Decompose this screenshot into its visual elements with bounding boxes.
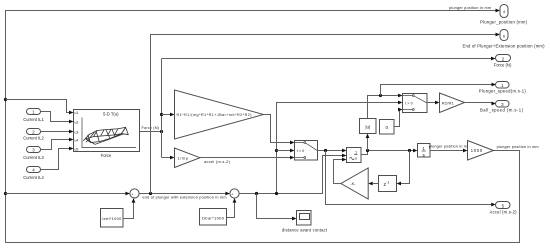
gain: -K- (mirrored) bbox=[341, 168, 368, 199]
svg-text:Ball_speed (m.s-1): Ball_speed (m.s-1) bbox=[480, 108, 524, 113]
svg-text:1: 1 bbox=[422, 146, 425, 151]
delay: unit delay z^-1 bbox=[379, 176, 397, 192]
svg-text:End of Plunger+Extension posit: End of Plunger+Extension position (mm) bbox=[463, 43, 546, 48]
wire: position m to 1000 gain bbox=[430, 149, 468, 153]
node: junction to abs bbox=[366, 149, 369, 152]
sum: Sum A (position + leef) bbox=[130, 189, 139, 200]
svg-text:t > 0: t > 0 bbox=[297, 149, 305, 153]
label: end of plunger with extension position in mm bbox=[143, 196, 227, 200]
port Out6 End of Plunger+Extension position (mm) bbox=[463, 30, 546, 49]
svg-text:Plunger_speed(m.s-1): Plunger_speed(m.s-1) bbox=[479, 89, 527, 94]
block: 5-D T(u) lookup table Force bbox=[74, 110, 140, 159]
svg-text:Force (N): Force (N) bbox=[494, 62, 512, 67]
svg-text:leef*1000: leef*1000 bbox=[102, 216, 122, 221]
wire: force to Out2 bbox=[162, 57, 496, 61]
wire: big gain output to switch1 input1 bbox=[264, 115, 295, 145]
label: plunger position in m bbox=[429, 144, 467, 148]
block: Dbar*1000 bbox=[200, 209, 227, 226]
wire: switch2 to R2/R1 gain bbox=[427, 101, 440, 105]
node: junction to big gain bbox=[160, 113, 163, 116]
svg-text:Force: Force bbox=[101, 153, 112, 158]
switch: Switch2 t > 0 bbox=[403, 94, 428, 113]
label: accel (m.s-2) bbox=[204, 159, 231, 164]
block: leef*1000 bbox=[101, 209, 124, 228]
svg-text:plunger position in mm: plunger position in mm bbox=[497, 145, 539, 149]
svg-text:Current IL3: Current IL3 bbox=[23, 155, 44, 160]
svg-text:Current IL1: Current IL1 bbox=[23, 117, 44, 122]
wire: to scope bbox=[257, 194, 297, 221]
wire: -K- output to integrator input3 bbox=[334, 158, 347, 184]
svg-text:R2/R1: R2/R1 bbox=[442, 100, 455, 105]
port Out3 Ball_speed (m.s-1) bbox=[480, 101, 524, 113]
wire: force vertical bus bbox=[161, 59, 163, 158]
node: junction accel out bbox=[324, 149, 327, 152]
wire: integrator output bbox=[361, 149, 418, 155]
svg-text:u2: u2 bbox=[75, 120, 79, 124]
scope: distance avant contact bbox=[282, 211, 328, 233]
wire: In4 to u5 bbox=[41, 147, 74, 170]
port In3 Current IL3 bbox=[23, 147, 44, 160]
wire: accel to switch1 input3 bbox=[200, 156, 295, 160]
constant: 0 bbox=[380, 120, 395, 135]
wire: control net (position mm) vertical to both switches bbox=[277, 101, 403, 194]
label: plunger position in mm (top) bbox=[449, 6, 491, 10]
wire: position feedback to u1 bbox=[6, 100, 74, 115]
port Out2 Force (N) bbox=[494, 55, 512, 68]
wire: Sum B output to integrator IC input bbox=[239, 154, 346, 194]
svg-text:Accel (m.s-2): Accel (m.s-2) bbox=[490, 210, 518, 215]
svg-text:s: s bbox=[355, 155, 357, 160]
svg-text:1000: 1000 bbox=[471, 148, 483, 153]
gain: 1/mp bbox=[175, 148, 201, 168]
svg-text:-K-: -K- bbox=[350, 181, 356, 186]
port In2 Current IL2 bbox=[23, 129, 44, 141]
wire: In1 to u2 bbox=[41, 112, 74, 124]
sum: Sum B (add Dbar) bbox=[230, 189, 239, 200]
gain: 1000 bbox=[468, 141, 494, 161]
wire: In2 to u3 bbox=[41, 130, 74, 134]
wire: to big gain input bbox=[162, 113, 175, 117]
wire: Dbar*1000 to Sum B bbox=[227, 198, 237, 217]
svg-text:u5: u5 bbox=[75, 147, 79, 151]
wire: abs output to switch2 input1 and Out1 bbox=[368, 94, 403, 119]
switch: Switch1 t > 0 bbox=[295, 141, 318, 161]
wire: constant 0 to switch2 input3 bbox=[394, 108, 403, 127]
svg-text:plunger position in mm: plunger position in mm bbox=[449, 6, 491, 10]
node: control junction to switch1 bbox=[275, 149, 278, 152]
node: junction on left border to sum A bbox=[4, 192, 7, 195]
gain: R2/R1 bbox=[440, 93, 465, 113]
wire: z^-1 feed from speed node bbox=[397, 151, 410, 186]
svg-text:Plunger_position (mm): Plunger_position (mm) bbox=[480, 20, 528, 25]
svg-text:|u|: |u| bbox=[365, 124, 370, 129]
port Out4 Plunger_position (mm) bbox=[480, 5, 528, 25]
node: force junction bbox=[160, 130, 163, 133]
svg-text:R1*R1/(mg*R1*R1+JBar+mb*R2*R2): R1*R1/(mg*R1*R1+JBar+mb*R2*R2) bbox=[177, 113, 252, 117]
wire: speed up to abs input bbox=[366, 134, 370, 151]
node: junction on left border to u1 bbox=[4, 98, 7, 101]
svg-text:plunger position in m: plunger position in m bbox=[429, 144, 467, 148]
gain: R1*R1/(mp*R1*R1+JBar+mb*R2*R2) bbox=[175, 90, 264, 139]
integrator: 1/s position bbox=[418, 144, 431, 158]
wire: leef*1000 to Sum A bbox=[123, 198, 135, 218]
node: junction to Out6 bbox=[149, 192, 152, 195]
wire: accel to Out5 bbox=[326, 151, 496, 207]
svg-text:Dbar*1000: Dbar*1000 bbox=[202, 215, 225, 220]
label: plunger position in mm (right) bbox=[497, 145, 539, 149]
svg-text:5-D T(u): 5-D T(u) bbox=[103, 111, 119, 116]
svg-text:u4: u4 bbox=[75, 138, 79, 142]
wire: to 1/mp gain input bbox=[162, 156, 175, 160]
svg-text:-1: -1 bbox=[386, 180, 389, 184]
svg-text:Current IL4: Current IL4 bbox=[23, 175, 44, 180]
svg-text:accel (m.s-2): accel (m.s-2) bbox=[204, 159, 231, 164]
wire: to Out6 End of Plunger+Extension bbox=[151, 33, 501, 194]
node: junction plunger speed bbox=[379, 94, 382, 97]
wire: switch1 output to integrator bbox=[318, 149, 347, 153]
port In4 Current IL4 bbox=[23, 167, 44, 180]
label: Force (N) wire label bbox=[141, 125, 159, 130]
wire: to Out1 Plunger_speed bbox=[381, 83, 497, 96]
abs: |u| bbox=[360, 119, 377, 134]
port Out1 Plunger_speed(m.s-1) bbox=[479, 82, 527, 94]
svg-text:Current IL2: Current IL2 bbox=[23, 135, 44, 140]
svg-text:u1: u1 bbox=[75, 111, 79, 115]
wire: Sum A output to Sum B bbox=[139, 192, 230, 196]
port In1 Current IL1 bbox=[23, 109, 44, 122]
wire: Force output to vertical bus bbox=[140, 131, 162, 133]
wire: left border to Sum A bbox=[6, 192, 130, 196]
wire: R2/R1 to Out3 Ball_speed bbox=[465, 102, 497, 106]
wire: In3 to u4 bbox=[41, 138, 74, 150]
node: junction to unit delay bbox=[408, 149, 411, 152]
wire: control to switch1 input2 bbox=[277, 149, 295, 153]
wire: unit delay to -K- gain bbox=[368, 182, 378, 186]
svg-text:distance avant contact: distance avant contact bbox=[282, 228, 328, 233]
svg-text:end of plunger with extension: end of plunger with extension position i… bbox=[143, 196, 227, 200]
node: junction control vertical bbox=[275, 192, 278, 195]
integrator: second-order with reset bbox=[347, 148, 362, 163]
svg-text:u3: u3 bbox=[75, 130, 79, 134]
port Out5 Accel (m.s-2) bbox=[490, 202, 518, 215]
svg-text:t > 0: t > 0 bbox=[405, 102, 413, 106]
svg-text:1/mp: 1/mp bbox=[178, 155, 189, 160]
node: junction to scope bbox=[255, 192, 258, 195]
